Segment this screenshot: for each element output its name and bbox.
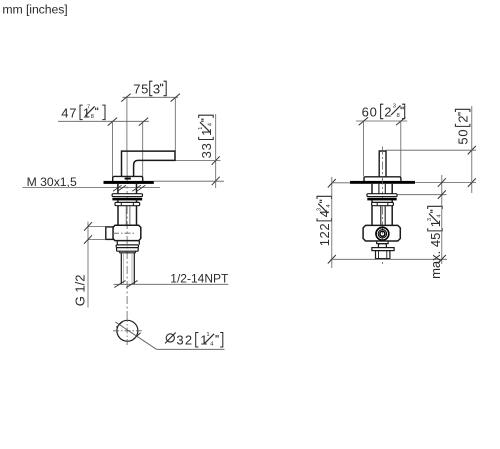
tick 47 left	[108, 118, 117, 126]
extension line 75 left (valve centre)	[126, 97, 128, 151]
escutcheon plate front dark bar	[350, 181, 415, 184]
diameter leader diagonal	[116, 322, 157, 349]
extension stem top to 50	[386, 149, 476, 151]
escutcheon flange dark bar	[104, 181, 154, 184]
svg-text:75: 75	[133, 81, 149, 96]
extension plate to 122	[332, 182, 350, 184]
extension 60 left	[363, 121, 365, 177]
dimension line 33	[215, 114, 217, 188]
collar front	[378, 244, 386, 248]
extension flange to 33 dim	[154, 180, 224, 182]
shank tube upper front	[371, 184, 373, 194]
surface hatch marks right	[132, 185, 141, 191]
valve stem front	[379, 151, 386, 177]
port projection lines	[88, 226, 106, 228]
mounting nut front	[372, 202, 394, 205]
dimension label 50[2"] rotated	[455, 109, 470, 144]
washer front	[367, 194, 397, 197]
circle crosshair horizontal	[113, 330, 142, 332]
valve stem inner lines	[125, 206, 127, 226]
lever handle	[122, 151, 176, 176]
surface hatch marks left	[113, 185, 122, 191]
tick 122 top	[328, 179, 336, 188]
tick max45 washer	[438, 190, 446, 199]
rubber seal front dark	[367, 198, 396, 201]
tick 60 right	[396, 117, 405, 125]
handle base cap	[113, 176, 143, 181]
dimension label max. 45 [1 3/4"] rotated	[427, 206, 443, 279]
svg-text:mm [inches]: mm [inches]	[2, 2, 67, 16]
extension line 47 right	[142, 121, 144, 176]
stem lines front lower	[380, 206, 382, 226]
extension line 75 right	[174, 97, 176, 151]
shank tube upper	[117, 184, 119, 194]
svg-text:2: 2	[456, 116, 471, 123]
washer	[112, 194, 142, 197]
tick max45 plate	[438, 178, 446, 187]
extension washer to max45	[397, 194, 446, 196]
circle crosshair vertical	[126, 316, 128, 345]
dimension line 60	[356, 120, 407, 122]
centerline right view	[381, 147, 383, 266]
shank tube lower front	[371, 206, 373, 226]
tick 33 bottom	[212, 177, 220, 186]
hole circle	[117, 320, 138, 341]
svg-text:60: 60	[362, 104, 378, 119]
G 1/2 dimension line	[87, 222, 89, 308]
tick 122 bottom	[328, 255, 336, 264]
tick max45 bottom	[438, 255, 446, 264]
svg-text:1/2-14NPT: 1/2-14NPT	[170, 272, 229, 286]
svg-text:32: 32	[176, 333, 193, 348]
svg-text:1: 1	[206, 332, 209, 338]
tube segment front	[371, 200, 373, 202]
thread lines	[123, 254, 125, 284]
tick G1/2 top	[84, 222, 92, 231]
svg-text:122: 122	[317, 219, 332, 247]
dimension line 47	[58, 120, 149, 122]
NPT leader line	[114, 283, 229, 285]
svg-text:G 1/2: G 1/2	[73, 275, 88, 307]
NPT connection tube	[120, 253, 122, 284]
svg-text:47: 47	[61, 105, 77, 120]
diameter symbol	[166, 334, 174, 342]
mounting surface leader line	[22, 186, 160, 188]
small step	[120, 251, 136, 253]
tick NPT left	[114, 281, 125, 288]
tick on circle upper	[116, 321, 124, 328]
port circle outer	[376, 227, 389, 240]
extension bottom shared	[331, 258, 448, 260]
svg-text:1: 1	[198, 127, 204, 130]
tick 75 right	[171, 94, 180, 102]
tick NPT right	[126, 281, 137, 288]
port circle inner	[380, 231, 385, 236]
svg-text:33: 33	[199, 138, 214, 158]
extension lever bottom to 33 dim	[175, 160, 220, 162]
side port G1/2	[106, 227, 113, 240]
set screw slot	[125, 178, 131, 180]
stem lines front	[378, 184, 380, 194]
tube segment	[117, 200, 119, 202]
dimension label 122[4 3/4"] rotated	[317, 196, 333, 246]
extension 60 right	[400, 121, 402, 177]
extension plate to 50	[415, 182, 476, 184]
washer below body	[116, 245, 138, 248]
dimension label 33[1 1/4"] rotated	[198, 115, 214, 158]
port circle middle	[378, 230, 386, 238]
valve body front	[363, 225, 400, 241]
extension line 47 left	[111, 121, 113, 176]
tick 47 right	[139, 118, 148, 126]
lock nut	[116, 248, 138, 252]
tick 50 top	[468, 146, 476, 155]
step below body	[117, 241, 139, 245]
svg-text:7: 7	[87, 105, 90, 111]
mounting nut	[115, 202, 140, 205]
dimension line max45	[441, 175, 443, 264]
bottom nut front	[376, 251, 390, 259]
valve shank lower	[117, 206, 119, 226]
dimension line 122	[331, 177, 333, 268]
tick 75 left	[121, 94, 130, 102]
tick 33 top	[212, 156, 220, 165]
stem cap front	[364, 177, 401, 182]
port centerline	[113, 232, 135, 234]
washer below front	[372, 248, 394, 251]
tick 60 left	[359, 117, 368, 125]
centerline left view	[126, 151, 128, 176]
tick on circle lower	[133, 333, 141, 340]
valve body side view	[113, 225, 141, 240]
step below body front	[377, 241, 388, 244]
dimension line 50	[471, 106, 473, 193]
tick G1/2 bottom	[84, 235, 92, 244]
leader underline	[156, 348, 224, 350]
svg-text:max. 45: max. 45	[428, 229, 443, 279]
svg-text:50: 50	[456, 124, 471, 144]
tick 50 bottom	[468, 178, 476, 187]
rubber seal dark	[112, 198, 142, 201]
dimension line 75	[123, 96, 179, 98]
svg-text:3: 3	[153, 81, 160, 96]
svg-text:2: 2	[384, 104, 391, 119]
